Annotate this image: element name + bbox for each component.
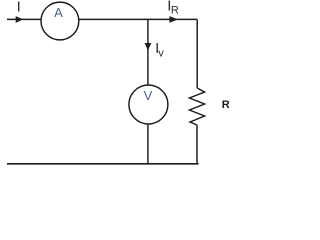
svg-text:A: A	[54, 5, 63, 20]
svg-text:v: v	[158, 48, 164, 60]
ammeter A1 (circle)	[41, 2, 79, 40]
arrowhead for current IR	[169, 16, 178, 23]
svg-text:R: R	[171, 5, 179, 17]
wire: vertical branch to voltmeter	[147, 19, 149, 85]
wire: top horizontal from ammeter to right corner	[79, 18, 197, 20]
arrowhead for input current I	[16, 16, 24, 23]
wire: top-left input stub	[7, 18, 41, 20]
wire: right vertical from corner to resistor	[196, 19, 198, 88]
arrowhead for current Iv	[145, 43, 152, 51]
svg-text:V: V	[144, 88, 153, 103]
wire: voltmeter bottom to ground rail	[147, 124, 149, 164]
resistor R (zigzag)	[189, 88, 204, 125]
wire: bottom rail	[7, 163, 199, 165]
svg-text:I: I	[17, 0, 21, 16]
svg-text:R: R	[222, 99, 230, 111]
voltmeter V1 (circle)	[129, 85, 168, 124]
wire: resistor bottom to ground rail	[196, 125, 198, 163]
